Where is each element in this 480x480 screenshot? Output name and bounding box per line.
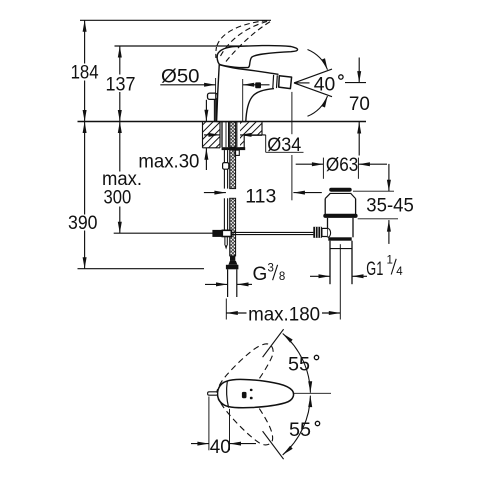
dimension 137 vertical (106, 46, 136, 122)
threaded shank in deck hole (222, 122, 237, 148)
svg-text:max.180: max.180 (248, 304, 320, 325)
dimension 35-45 vertical (353, 164, 414, 244)
svg-text:4: 4 (396, 266, 403, 278)
svg-text:55: 55 (289, 420, 311, 441)
svg-text:G1: G1 (366, 259, 383, 280)
label 55° upper (288, 354, 319, 375)
logo mark on spout (255, 82, 261, 88)
pop-up waste body (323, 188, 357, 284)
spout joint ring and aerator nozzle (273, 75, 292, 89)
deck section right block (hatched) (0, 118, 480, 152)
svg-text:40: 40 (210, 437, 231, 458)
dimension max.180 horizontal (226, 244, 340, 325)
handle set-screw tab (208, 392, 218, 395)
svg-text:Ø50: Ø50 (161, 66, 200, 87)
rod adjuster on waste (313, 227, 330, 238)
reference line at lever top (137) (115, 45, 248, 47)
svg-text:3: 3 (268, 262, 274, 274)
label 40° (314, 74, 343, 95)
svg-text:Ø34: Ø34 (267, 135, 301, 156)
dimension max.30 (deck thickness) (138, 100, 208, 173)
dimension 184 vertical (71, 20, 99, 121)
mounting washer and nut (222, 147, 246, 155)
svg-text:40: 40 (314, 74, 336, 95)
handle rotated -55° (dashed, top view) (212, 375, 282, 452)
dimension Ø50 (body diameter) (160, 66, 269, 121)
55° arc lower with arrows (283, 396, 313, 455)
55° limit line upper (263, 329, 284, 357)
top reference line (lever raised height) (80, 19, 271, 21)
pop-up lift rod below deck (223, 150, 229, 250)
dimension 40 horizontal (191, 397, 256, 459)
dimension max.300 vertical (102, 122, 142, 234)
svg-text:Ø63: Ø63 (326, 155, 358, 176)
rod clamp joint (212, 230, 231, 237)
svg-text:55: 55 (288, 354, 310, 375)
svg-text:184: 184 (71, 63, 99, 84)
deck section left block (hatched) (0, 118, 480, 152)
svg-text:1: 1 (387, 255, 393, 267)
faucet body (side view) (217, 56, 279, 121)
40° angle arcs with arrows (308, 50, 328, 117)
dimension 113 horizontal (204, 92, 322, 207)
svg-text:70: 70 (349, 94, 370, 115)
mounting deck surface line (78, 121, 367, 123)
handle (top view) (218, 379, 294, 407)
lever raised position (dashed) (216, 20, 271, 61)
svg-text:390: 390 (68, 213, 98, 234)
pop-up rod extension line (114, 232, 213, 234)
dimension Ø63 (waste flange) (296, 155, 387, 179)
dimension Ø34 (shank) (204, 133, 304, 156)
pop-up lift rod with knob (208, 93, 218, 121)
handle rotated +55° (dashed, top view) (211, 336, 281, 413)
pop-up linkage rod (213, 232, 314, 234)
lever handle (side view) (217, 46, 297, 68)
dimension G3/8 thread (205, 262, 285, 286)
hose G3/8 connection end (226, 256, 239, 297)
dimension 70 vertical (345, 58, 370, 156)
svg-text:113: 113 (245, 186, 276, 207)
55° arc upper with arrows (283, 334, 313, 393)
svg-text:300: 300 (104, 188, 132, 209)
dimension G1 1/4 thread (310, 255, 403, 280)
40° spray angle rays (294, 69, 332, 97)
svg-text:G: G (253, 264, 268, 285)
svg-text:35-45: 35-45 (366, 196, 414, 217)
svg-text:137: 137 (106, 74, 136, 95)
label 55° lower (289, 420, 320, 441)
svg-text:max.30: max.30 (138, 152, 199, 173)
55° limit line lower (263, 431, 284, 459)
bottom reference line (390) (78, 268, 205, 270)
svg-text:8: 8 (279, 271, 285, 283)
handle logo dots (242, 389, 253, 400)
handle centerline (294, 392, 332, 394)
flexible supply hose (braided) (230, 150, 236, 256)
dimension 390 vertical (68, 122, 98, 269)
